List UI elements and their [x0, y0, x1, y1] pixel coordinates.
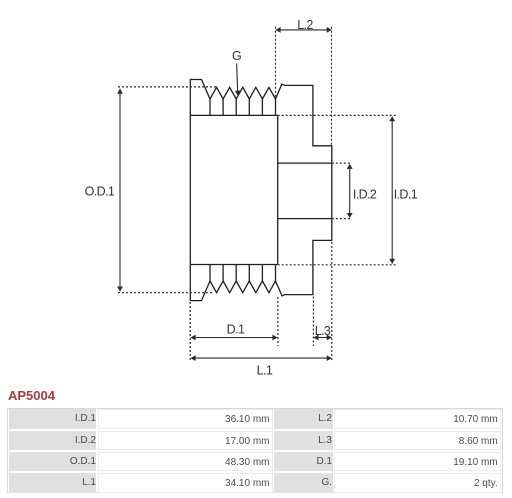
bore edge lines (I.D.2 hole) [278, 163, 332, 219]
I.D.2 extension line bottom [332, 218, 352, 220]
D.1 / L.1 extension line left [189, 302, 191, 362]
G leader arrow [235, 64, 241, 96]
product code heading [8, 388, 55, 403]
svg-text:O.D.1: O.D.1 [85, 184, 115, 198]
L.2 extension line right [331, 27, 333, 146]
O.D.1 dotted leader top [118, 86, 218, 88]
L.3 extension line left [312, 297, 314, 347]
I.D.1 dimension line with arrows [389, 116, 395, 264]
L.2 dimension line with arrows [276, 27, 332, 33]
I.D.1 extension line top [278, 114, 397, 116]
svg-text:L.1: L.1 [257, 364, 273, 378]
L.3 / L.1 extension line right [331, 242, 333, 362]
pulley outline (grooved body and hub silhouette) [190, 80, 331, 301]
groove root lines [190, 115, 277, 264]
dimensions table [7, 408, 503, 493]
groove verticals bottom [210, 265, 276, 282]
L.2 extension line left [275, 27, 277, 99]
D.1 dimension line with arrows [191, 335, 278, 341]
groove verticals top [210, 99, 276, 115]
svg-text:L.2: L.2 [297, 18, 313, 32]
I.D.1 extension line bottom [278, 264, 397, 266]
svg-text:I.D.2: I.D.2 [353, 187, 377, 201]
pulley body right face [277, 115, 279, 264]
svg-text:L.3: L.3 [315, 324, 331, 338]
L.1 dimension line with arrows [191, 355, 332, 361]
svg-text:I.D.1: I.D.1 [394, 187, 418, 201]
O.D.1 dotted leader bottom [118, 292, 214, 294]
I.D.2 extension line top [332, 162, 352, 164]
D.1 extension line right [277, 297, 279, 346]
O.D.1 dimension line with arrows [117, 89, 123, 292]
I.D.2 dimension line with arrows [347, 164, 353, 218]
svg-text:D.1: D.1 [227, 322, 245, 336]
L.3 dimension line with arrows [313, 335, 331, 341]
svg-text:G: G [232, 49, 241, 63]
